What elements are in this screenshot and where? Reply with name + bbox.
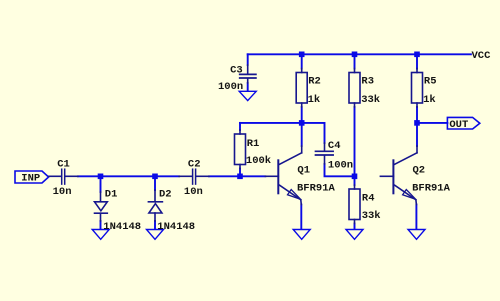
svg-text:OUT: OUT (449, 119, 468, 131)
svg-text:INP: INP (21, 172, 40, 184)
svg-text:R2: R2 (308, 76, 321, 88)
svg-text:100k: 100k (246, 155, 271, 167)
svg-text:33k: 33k (362, 210, 381, 222)
svg-text:R1: R1 (247, 138, 260, 150)
svg-text:100n: 100n (328, 159, 353, 171)
svg-text:10n: 10n (53, 186, 72, 198)
svg-text:BFR91A: BFR91A (412, 182, 451, 194)
svg-text:BFR91A: BFR91A (297, 182, 336, 194)
svg-text:33k: 33k (361, 94, 380, 106)
svg-text:C3: C3 (230, 64, 243, 76)
svg-text:R3: R3 (361, 76, 374, 88)
svg-text:Q1: Q1 (297, 165, 310, 177)
svg-text:C1: C1 (57, 159, 70, 171)
svg-text:C2: C2 (188, 158, 201, 170)
svg-text:R5: R5 (424, 76, 437, 88)
svg-text:R4: R4 (362, 193, 375, 205)
svg-text:C4: C4 (328, 140, 341, 152)
svg-text:1N4148: 1N4148 (103, 221, 141, 233)
svg-text:1k: 1k (423, 94, 436, 106)
svg-text:100n: 100n (218, 81, 243, 93)
svg-text:D2: D2 (159, 188, 172, 200)
svg-text:D1: D1 (105, 188, 118, 200)
svg-text:1N4148: 1N4148 (157, 221, 195, 233)
svg-text:1k: 1k (308, 94, 321, 106)
svg-text:VCC: VCC (472, 50, 492, 62)
svg-text:Q2: Q2 (413, 165, 426, 177)
svg-text:10n: 10n (184, 186, 203, 198)
